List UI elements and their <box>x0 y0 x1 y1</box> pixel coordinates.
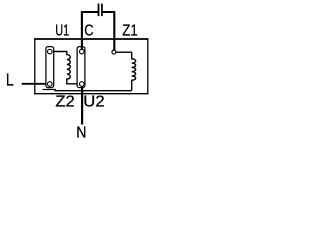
enclosure box bottom edge <box>34 93 148 95</box>
inductor Z1 winding <box>132 52 136 90</box>
wire N supply lead <box>81 86 83 124</box>
svg-text:N: N <box>76 124 86 141</box>
svg-text:C: C <box>84 22 93 39</box>
svg-text:Z1: Z1 <box>122 23 138 40</box>
svg-text:Z2: Z2 <box>55 94 74 111</box>
node junction C/Z1 tap <box>112 50 116 54</box>
enclosure box top edge <box>34 38 148 40</box>
enclosure box left edge <box>34 38 36 94</box>
terminal top-right screw <box>80 49 85 54</box>
wire capacitor right down to node <box>102 12 114 50</box>
enclosure box right edge <box>147 38 149 94</box>
capacitor C plate right <box>101 4 103 17</box>
terminal rail right (C / U2) <box>77 47 85 88</box>
terminal rail left (U1 / Z2) <box>46 47 54 88</box>
terminal bottom-right screw <box>80 82 85 87</box>
terminal U1 (top-left screw) <box>48 49 53 54</box>
wire capacitor left to terminal U1 rail top <box>82 12 99 49</box>
svg-text:U2: U2 <box>83 94 104 111</box>
wire Z1 bottom bus to N junction <box>43 90 132 91</box>
svg-text:L: L <box>6 70 14 90</box>
wire L supply lead <box>22 83 46 85</box>
winding U1 (main winding coil) <box>54 52 77 84</box>
terminal Z2 (bottom-left screw) <box>48 82 53 87</box>
capacitor C plate left <box>98 4 100 17</box>
svg-text:U1: U1 <box>55 23 69 40</box>
wire node to Z1 coil <box>116 51 132 53</box>
